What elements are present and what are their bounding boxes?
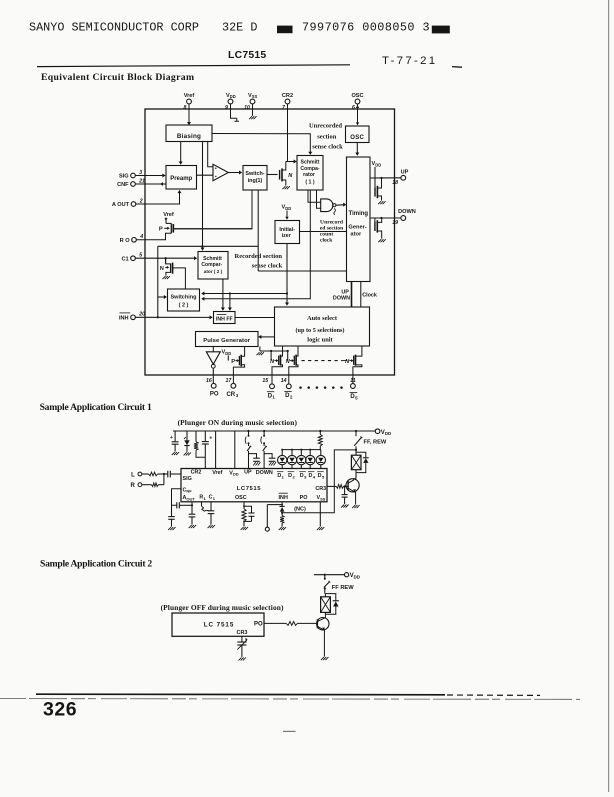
svg-text:UP: UP (341, 289, 349, 295)
svg-text:+: + (209, 435, 212, 441)
svg-text:OSC: OSC (350, 135, 364, 141)
svg-text:14: 14 (281, 378, 287, 384)
svg-text:16: 16 (206, 378, 212, 384)
svg-text:AOUT: AOUT (183, 495, 196, 501)
svg-text:(up to 5 selections): (up to 5 selections) (296, 327, 345, 334)
svg-text:sense clock: sense clock (312, 143, 343, 150)
svg-text:PO: PO (254, 622, 263, 628)
svg-text:logic unit: logic unit (307, 336, 333, 343)
svg-text:CR3: CR3 (236, 630, 247, 636)
svg-text:INH FF: INH FF (216, 316, 233, 322)
svg-text:INH: INH (119, 316, 129, 322)
svg-text:ed section: ed section (320, 225, 344, 231)
svg-text:ator ( 2 ): ator ( 2 ) (204, 269, 223, 274)
svg-text:VDD: VDD (282, 205, 292, 211)
svg-text:clock: clock (320, 238, 333, 244)
svg-text:DOWN: DOWN (398, 209, 416, 215)
svg-text:(Plunger ON during music selec: (Plunger ON during music selection) (178, 418, 298, 427)
svg-text:T-77-21: T-77-21 (382, 55, 437, 67)
svg-text:Sample Application Circuit 1: Sample Application Circuit 1 (40, 402, 152, 413)
svg-text:15: 15 (262, 378, 268, 384)
svg-text:SIG: SIG (183, 476, 192, 482)
svg-text:Compar-: Compar- (201, 262, 222, 268)
svg-text:VDD: VDD (381, 430, 391, 436)
svg-text:Gener-: Gener- (348, 225, 366, 231)
svg-text:Sample Application Circuit 2: Sample Application Circuit 2 (40, 559, 152, 570)
svg-text:11: 11 (350, 378, 355, 384)
svg-text:Switching: Switching (171, 294, 197, 300)
svg-text:SANYO SEMICONDUCTOR CORP: SANYO SEMICONDUCTOR CORP (29, 21, 199, 35)
svg-text:Preamp: Preamp (170, 176, 192, 182)
svg-text:LC7515: LC7515 (228, 50, 266, 61)
svg-text:18: 18 (392, 180, 398, 186)
svg-text:VDD: VDD (372, 161, 382, 167)
svg-text:ing(1): ing(1) (248, 178, 263, 184)
svg-text:CR3: CR3 (315, 486, 326, 492)
svg-text:19: 19 (392, 220, 398, 226)
svg-text:6: 6 (352, 105, 355, 111)
svg-text:Vref: Vref (163, 212, 174, 218)
svg-text:VSS: VSS (317, 495, 326, 501)
svg-text:Clock: Clock (362, 292, 377, 298)
svg-text:DOWN: DOWN (256, 470, 273, 476)
svg-text:sense clock: sense clock (252, 263, 283, 270)
svg-text:326: 326 (43, 699, 77, 721)
svg-text:CR2: CR2 (191, 470, 202, 476)
svg-text:count: count (320, 231, 334, 237)
svg-text:R: R (130, 483, 135, 489)
svg-text:PO: PO (300, 495, 308, 501)
svg-text:INH: INH (279, 495, 288, 501)
svg-text:Schmitt: Schmitt (300, 160, 319, 166)
svg-text:Equivalent Circuit Block Diagr: Equivalent Circuit Block Diagram (41, 72, 194, 83)
svg-text:+: + (170, 435, 173, 441)
svg-text:rator: rator (303, 172, 315, 178)
svg-text:8: 8 (184, 105, 187, 111)
svg-text:C1: C1 (121, 256, 128, 262)
svg-text:CR2: CR2 (282, 93, 293, 99)
svg-text:32E D: 32E D (222, 21, 257, 35)
svg-text:VDD: VDD (226, 93, 236, 99)
svg-text:A OUT: A OUT (112, 202, 130, 208)
svg-text:OSC: OSC (351, 93, 363, 99)
svg-text:ator: ator (350, 231, 362, 237)
svg-text:9: 9 (225, 105, 228, 111)
svg-text:7997076 0008050 3: 7997076 0008050 3 (302, 21, 430, 35)
svg-text:VDD: VDD (229, 470, 238, 476)
svg-text:CNF: CNF (183, 487, 193, 493)
svg-text:FF REW: FF REW (332, 585, 354, 591)
svg-text:VDD: VDD (350, 573, 360, 579)
svg-text:Biasing: Biasing (177, 133, 201, 140)
svg-text:P: P (231, 359, 235, 365)
svg-text:SIG: SIG (119, 174, 129, 180)
svg-text:izer: izer (282, 233, 291, 239)
svg-text:( 2 ): ( 2 ) (179, 302, 189, 308)
svg-text:Switch-: Switch- (245, 171, 264, 177)
svg-text:Pulse Generator: Pulse Generator (203, 338, 251, 344)
svg-text:N: N (160, 266, 164, 272)
svg-text:LC7515: LC7515 (237, 486, 261, 492)
svg-text:(Plunger OFF during music sele: (Plunger OFF during music selection) (161, 603, 284, 612)
svg-text:OSC: OSC (235, 495, 247, 501)
svg-text:10: 10 (244, 105, 250, 111)
svg-text:UP: UP (244, 470, 252, 476)
svg-text:Schmitt: Schmitt (203, 256, 222, 262)
svg-text:(NC): (NC) (294, 507, 306, 513)
svg-text:DOWN: DOWN (333, 296, 350, 302)
svg-text:R O: R O (120, 238, 131, 244)
svg-text:CNF: CNF (117, 182, 129, 188)
svg-text:FF, REW: FF, REW (364, 440, 387, 446)
svg-text:Unrecorded: Unrecorded (309, 122, 342, 129)
svg-text:( 1 ): ( 1 ) (305, 179, 314, 185)
svg-text:Initial-: Initial- (279, 227, 295, 233)
svg-text:UP: UP (401, 169, 409, 175)
svg-text:L: L (131, 472, 135, 478)
svg-text:VDD: VDD (222, 350, 232, 356)
svg-text:section: section (317, 134, 337, 141)
svg-text:Vref: Vref (212, 470, 222, 476)
svg-text:P: P (159, 227, 163, 233)
svg-text:Timing: Timing (349, 211, 369, 217)
svg-text:Auto select: Auto select (307, 315, 338, 322)
svg-text:Vref: Vref (184, 93, 195, 99)
svg-text:VSS: VSS (248, 93, 257, 99)
svg-text:Compa-: Compa- (300, 166, 320, 172)
svg-text:PO: PO (210, 391, 219, 397)
svg-text:LC 7515: LC 7515 (204, 622, 234, 629)
svg-text:CR: CR (226, 392, 235, 398)
